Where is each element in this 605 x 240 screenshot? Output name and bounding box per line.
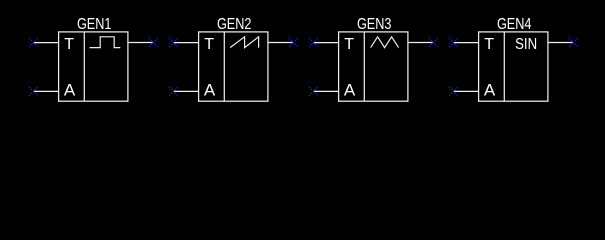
wire: output stub of GEN1 <box>128 42 154 44</box>
wire: output stub of GEN3 <box>408 42 434 44</box>
node marker: output of GEN2 <box>289 38 298 47</box>
node marker: output of GEN4 <box>569 38 578 47</box>
node marker: T input of GEN4 <box>449 38 458 47</box>
generator U1 body (GEN1) <box>59 32 128 101</box>
wire: A input stub of GEN2 <box>174 90 199 92</box>
svg-text:GEN3: GEN3 <box>357 16 392 33</box>
svg-text:SIN: SIN <box>515 36 537 53</box>
svg-text:A: A <box>204 81 216 100</box>
svg-text:GEN1: GEN1 <box>77 16 112 33</box>
wire: T input stub of GEN2 <box>174 42 199 44</box>
svg-text:A: A <box>484 81 496 100</box>
generator U4 body (GEN4) <box>479 32 548 101</box>
svg-text:GEN4: GEN4 <box>497 16 532 33</box>
node marker: output of GEN3 <box>429 38 438 47</box>
svg-text:A: A <box>344 81 356 100</box>
svg-text:T: T <box>344 36 354 53</box>
node marker: output of GEN1 <box>149 38 158 47</box>
svg-text:T: T <box>484 36 494 53</box>
node marker: A input of GEN3 <box>309 87 318 96</box>
node marker: A input of GEN2 <box>169 87 178 96</box>
node marker: T input of GEN2 <box>169 38 178 47</box>
node marker: T input of GEN1 <box>29 38 38 47</box>
svg-text:A: A <box>64 81 76 100</box>
svg-text:T: T <box>64 36 74 53</box>
node marker: T input of GEN3 <box>309 38 318 47</box>
sawtooth-wave symbol <box>230 37 259 48</box>
node marker: A input of GEN1 <box>29 87 38 96</box>
wire: T input stub of GEN4 <box>454 42 479 44</box>
svg-text:GEN2: GEN2 <box>217 16 252 33</box>
wire: T input stub of GEN3 <box>314 42 339 44</box>
wire: A input stub of GEN1 <box>34 90 59 92</box>
wire: output stub of GEN4 <box>548 42 574 44</box>
node marker: A input of GEN4 <box>449 87 458 96</box>
wire: T input stub of GEN1 <box>34 42 59 44</box>
svg-text:T: T <box>204 36 214 53</box>
wire: A input stub of GEN4 <box>454 90 479 92</box>
wire: A input stub of GEN3 <box>314 90 339 92</box>
square-wave symbol <box>90 37 121 48</box>
generator U2 body (GEN2) <box>199 32 268 101</box>
generator U3 body (GEN3) <box>339 32 408 101</box>
triangle-wave symbol <box>371 37 399 48</box>
wire: output stub of GEN2 <box>268 42 294 44</box>
